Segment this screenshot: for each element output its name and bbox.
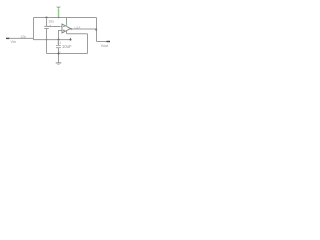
pin plus mark [63, 30, 65, 32]
node rail end dot [70, 39, 72, 41]
pin V- lead [66, 31, 68, 34]
svg-text:10u: 10u [48, 20, 54, 24]
node junction ground [58, 53, 60, 55]
svg-text:Vin: Vin [11, 40, 16, 44]
background [0, 0, 120, 73]
svg-text:Vout: Vout [101, 44, 108, 48]
wire V+ green [66, 24, 68, 26]
svg-text:10uF: 10uF [62, 44, 72, 49]
wire V- rail [67, 33, 88, 35]
wire top rail [34, 17, 97, 19]
wire non-inverting input stub [59, 31, 63, 40]
wire ground link [47, 53, 88, 55]
pin minus mark [63, 26, 65, 28]
node junction plus-rail [58, 39, 60, 41]
capacitor C1 plates [56, 46, 61, 48]
wire bottom rail [9, 37, 34, 39]
node junction C-branch top [46, 17, 48, 19]
svg-text:U1A: U1A [75, 26, 81, 30]
capacitor C2 top lead [46, 18, 48, 26]
capacitor C1 bottom lead [58, 48, 60, 63]
node output dot [71, 28, 73, 30]
node junction VCC rail [58, 17, 60, 19]
capacitor C1 top lead [58, 40, 60, 46]
wire right vertical [96, 18, 98, 42]
wire green pin tip inverting input [61, 26, 62, 28]
wire VCC green drop [58, 9, 60, 17]
port Vin [6, 37, 10, 39]
wire output run [97, 41, 111, 43]
power symbol VCC [56, 7, 61, 9]
node junction output-right [95, 28, 97, 31]
wire left vertical [33, 18, 35, 40]
wire output [71, 28, 97, 30]
wire bottom rail right part [33, 39, 71, 41]
wire V- down [87, 34, 89, 54]
pin V+ lead [66, 18, 68, 25]
wire feedback stub [70, 38, 72, 40]
svg-text:12k: 12k [20, 35, 26, 39]
op-amp U1 [62, 24, 71, 33]
capacitor C2 bottom lead [46, 28, 48, 53]
port Vout [107, 41, 111, 43]
ground [56, 62, 62, 64]
svg-text:C1: C1 [57, 41, 61, 45]
wire inverting input [47, 26, 61, 28]
capacitor C2 plates [44, 26, 49, 28]
node junction cap-rail [46, 39, 48, 41]
